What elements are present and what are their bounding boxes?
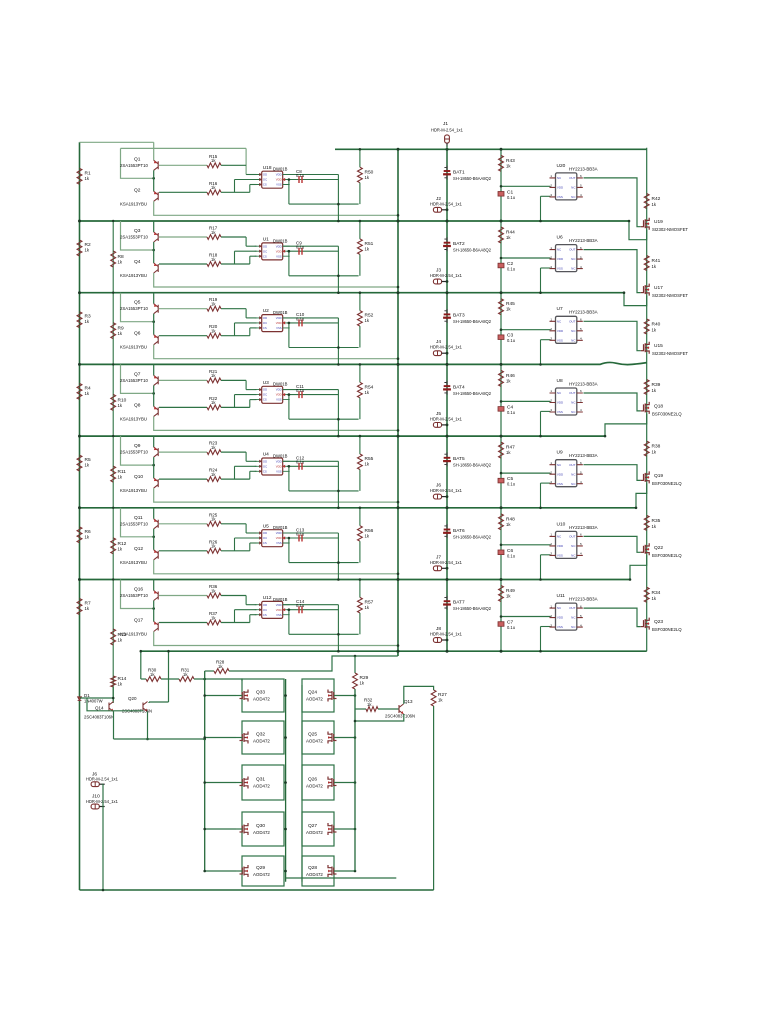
wire xyxy=(446,146,448,150)
IC U5 DW01B xyxy=(262,530,283,547)
IC U11 HY2213-BB3A xyxy=(556,603,577,630)
svg-text:0.1u: 0.1u xyxy=(507,195,515,200)
wire xyxy=(205,670,214,672)
wire xyxy=(168,651,170,702)
svg-text:Q23: Q23 xyxy=(654,619,663,625)
junction xyxy=(284,870,287,873)
svg-text:Q16: Q16 xyxy=(134,587,143,593)
junction xyxy=(539,578,542,581)
wire xyxy=(337,175,339,222)
connector J6 xyxy=(433,494,441,499)
wire xyxy=(501,257,551,259)
capacitor C7 xyxy=(498,622,504,627)
wire xyxy=(154,273,398,287)
wire xyxy=(221,236,246,238)
resistor R43 xyxy=(499,155,504,171)
junction xyxy=(397,220,400,223)
svg-text:VDD: VDD xyxy=(276,603,282,607)
wire xyxy=(159,595,207,597)
svg-text:SH-18650-B6AA8Q2: SH-18650-B6AA8Q2 xyxy=(453,248,492,253)
wire xyxy=(159,379,207,381)
wire xyxy=(204,671,206,871)
wire xyxy=(236,782,242,784)
wire xyxy=(121,364,154,393)
wire xyxy=(636,483,647,507)
wire xyxy=(235,465,257,467)
svg-text:CS: CS xyxy=(263,541,267,545)
transistor Q10 xyxy=(154,478,159,488)
junction xyxy=(78,291,81,294)
wire xyxy=(121,148,154,178)
resistor R56 xyxy=(358,526,363,542)
junction xyxy=(446,424,449,427)
wire xyxy=(159,308,207,310)
svg-text:KSA1913YBU: KSA1913YBU xyxy=(120,560,147,565)
wire xyxy=(446,149,448,651)
connector J6 xyxy=(91,782,99,787)
resistor R16 xyxy=(207,190,221,195)
transistor Q6 xyxy=(154,335,159,345)
wire xyxy=(245,237,247,246)
svg-text:SH-18650-B6AA8Q2: SH-18650-B6AA8Q2 xyxy=(453,606,492,611)
transistor Q16 xyxy=(154,591,159,601)
svg-text:CS: CS xyxy=(263,326,267,330)
wire xyxy=(287,394,339,396)
wire xyxy=(283,460,339,462)
junction xyxy=(397,650,400,653)
svg-text:OD: OD xyxy=(263,459,267,463)
wire bus 0 xyxy=(335,148,647,150)
svg-text:OD: OD xyxy=(263,244,267,248)
wire xyxy=(288,323,290,348)
junction xyxy=(288,322,291,325)
wire xyxy=(334,737,355,739)
wire xyxy=(584,608,641,627)
junction xyxy=(288,465,291,468)
wire bus 2 xyxy=(80,292,625,294)
wire xyxy=(334,870,355,872)
wire xyxy=(221,335,250,337)
svg-text:HDR-M-2.54_1x1: HDR-M-2.54_1x1 xyxy=(430,488,463,493)
wire xyxy=(286,877,397,879)
wire xyxy=(288,538,290,563)
junction xyxy=(284,736,287,739)
wire xyxy=(234,538,236,551)
wire xyxy=(246,245,256,247)
svg-text:U6: U6 xyxy=(557,235,563,241)
svg-text:SI2302-NMOSFET: SI2302-NMOSFET xyxy=(652,293,688,298)
transistor Q14 xyxy=(109,702,114,712)
junction xyxy=(337,220,340,223)
wire xyxy=(541,482,551,484)
transistor Q8 xyxy=(154,406,159,416)
svg-text:VDD: VDD xyxy=(557,329,564,333)
wire xyxy=(236,695,242,697)
wire xyxy=(79,142,81,890)
wire xyxy=(289,347,359,349)
wire xyxy=(354,656,356,673)
IC U8 HY2213-BB3A xyxy=(556,388,577,415)
svg-text:2SA1553PT10: 2SA1553PT10 xyxy=(120,378,149,383)
wire xyxy=(236,828,242,830)
resistor R37 xyxy=(207,620,221,625)
svg-text:Q30: Q30 xyxy=(256,823,265,829)
svg-text:U17: U17 xyxy=(654,285,663,291)
junction xyxy=(500,291,503,294)
wire xyxy=(283,317,339,319)
svg-text:HDR-M-2.54_1x1: HDR-M-2.54_1x1 xyxy=(430,560,463,565)
svg-text:Q28: Q28 xyxy=(308,865,317,871)
wire xyxy=(359,364,361,382)
svg-text:0.1u: 0.1u xyxy=(296,173,305,178)
junction xyxy=(337,650,340,653)
wire xyxy=(121,580,154,609)
wire xyxy=(283,389,339,391)
IC U4 DW01B xyxy=(262,458,283,475)
wire xyxy=(221,406,250,408)
svg-text:0.1u: 0.1u xyxy=(507,338,515,343)
box Q30 xyxy=(242,812,284,846)
wire xyxy=(205,870,236,872)
wire xyxy=(359,580,361,598)
wire xyxy=(153,529,155,550)
capacitor C12 xyxy=(299,463,302,470)
svg-text:VDD: VDD xyxy=(276,531,282,535)
junction xyxy=(152,464,155,467)
wire xyxy=(337,605,339,652)
svg-text:KSA1913YBU: KSA1913YBU xyxy=(120,345,147,350)
junction xyxy=(539,363,542,366)
wire xyxy=(249,328,251,336)
svg-text:VDD: VDD xyxy=(276,316,282,320)
wire xyxy=(397,149,399,656)
IC U12 DW01B xyxy=(262,601,283,618)
junction xyxy=(337,291,340,294)
svg-text:Q25: Q25 xyxy=(308,732,317,738)
wire xyxy=(359,541,361,562)
wire xyxy=(221,191,250,193)
junction xyxy=(359,578,362,581)
junction xyxy=(359,220,362,223)
wire xyxy=(205,737,236,739)
wire xyxy=(359,398,361,419)
connector J7 xyxy=(433,566,441,571)
svg-text:OUT: OUT xyxy=(569,248,576,252)
wire xyxy=(245,380,247,389)
resistor R50 xyxy=(358,167,363,183)
resistor R52 xyxy=(358,311,363,327)
svg-text:OC: OC xyxy=(263,464,267,468)
junction xyxy=(337,203,340,206)
junction xyxy=(112,578,114,580)
wire xyxy=(289,562,359,564)
resistor R9 xyxy=(111,323,116,339)
junction xyxy=(500,400,503,403)
wire xyxy=(221,622,250,624)
svg-text:HDR-M-2.54_1x1: HDR-M-2.54_1x1 xyxy=(430,632,463,637)
svg-text:DW01B: DW01B xyxy=(273,238,288,243)
wire xyxy=(221,550,250,552)
wire xyxy=(236,870,242,872)
svg-text:OC: OC xyxy=(263,178,267,182)
resistor R45 xyxy=(499,299,504,315)
svg-text:Q3: Q3 xyxy=(134,228,141,234)
transistor Q20 xyxy=(143,702,148,712)
svg-text:OD: OD xyxy=(263,388,267,392)
svg-text:VDD: VDD xyxy=(276,608,282,612)
wire xyxy=(630,555,647,579)
svg-text:BSF030NE2LQ: BSF030NE2LQ xyxy=(652,481,682,486)
connector J5 xyxy=(433,423,441,428)
capacitor C13 xyxy=(299,535,302,542)
svg-text:OC: OC xyxy=(263,608,267,612)
svg-text:0.1u: 0.1u xyxy=(296,388,305,393)
wire xyxy=(359,221,361,239)
svg-text:SH-18650-B6AA8Q2: SH-18650-B6AA8Q2 xyxy=(453,391,492,396)
svg-text:HDR-M-2.54_1x1: HDR-M-2.54_1x1 xyxy=(86,777,119,782)
svg-text:VDD: VDD xyxy=(276,536,282,540)
svg-text:OUT: OUT xyxy=(569,606,576,610)
svg-text:DW01B: DW01B xyxy=(273,597,288,602)
battery BAT1 xyxy=(446,166,448,180)
svg-text:Q13: Q13 xyxy=(404,699,413,704)
wire xyxy=(354,689,356,871)
junction xyxy=(288,537,291,540)
junction xyxy=(446,220,449,223)
svg-text:VDD: VDD xyxy=(276,321,282,325)
junction xyxy=(397,214,400,217)
wire xyxy=(153,170,155,191)
wire xyxy=(245,452,247,461)
wire xyxy=(629,221,647,240)
svg-text:Q32: Q32 xyxy=(256,732,265,738)
svg-text:VDD: VDD xyxy=(276,393,282,397)
resistor R40 xyxy=(644,319,649,334)
wire xyxy=(80,697,114,699)
svg-text:VSS: VSS xyxy=(276,469,282,473)
junction xyxy=(539,291,542,294)
junction xyxy=(397,650,400,653)
junction xyxy=(203,870,206,873)
svg-text:Q9: Q9 xyxy=(134,443,141,449)
wire xyxy=(337,390,339,437)
wire xyxy=(154,345,398,359)
resistor R19 xyxy=(207,306,221,311)
IC U9 HY2213-BB3A xyxy=(556,460,577,487)
junction xyxy=(500,615,503,618)
wire xyxy=(540,555,542,580)
transistor Q30 AOD472 xyxy=(240,823,249,835)
wire xyxy=(250,470,257,472)
junction xyxy=(203,828,206,831)
svg-text:VSS: VSS xyxy=(557,195,563,199)
svg-text:Q5: Q5 xyxy=(134,300,141,306)
junction xyxy=(446,639,449,642)
wire xyxy=(288,466,290,491)
junction xyxy=(337,418,340,421)
svg-text:Q11: Q11 xyxy=(134,515,143,521)
svg-text:HDR-M-2.54_1x1: HDR-M-2.54_1x1 xyxy=(430,201,463,206)
wire xyxy=(289,275,359,277)
svg-text:2SA1553PT10: 2SA1553PT10 xyxy=(120,521,149,526)
wire xyxy=(646,148,648,652)
battery BAT3 xyxy=(446,309,448,323)
capacitor C2 xyxy=(498,263,504,268)
wire xyxy=(501,544,551,546)
wire xyxy=(249,400,251,408)
capacitor C3 xyxy=(498,335,504,340)
junction xyxy=(628,220,631,223)
wire xyxy=(541,267,551,269)
svg-text:U7: U7 xyxy=(557,306,563,312)
transistor Q19 xyxy=(641,471,650,483)
wire xyxy=(153,314,155,335)
svg-text:BSF030NE2LQ: BSF030NE2LQ xyxy=(652,627,682,632)
transistor Q4 xyxy=(154,263,159,273)
svg-text:U3: U3 xyxy=(263,380,269,386)
junction xyxy=(359,363,362,366)
wire xyxy=(205,828,236,830)
wire xyxy=(334,828,355,830)
junction xyxy=(354,694,357,697)
junction xyxy=(140,650,143,653)
wire xyxy=(236,737,242,739)
svg-text:Q20: Q20 xyxy=(128,696,137,701)
resistor R29 xyxy=(353,673,358,689)
svg-text:HY2213-BB3A: HY2213-BB3A xyxy=(569,597,598,602)
svg-text:BSF030NE2LQ: BSF030NE2LQ xyxy=(652,553,682,558)
svg-text:VSS: VSS xyxy=(557,482,563,486)
wire xyxy=(301,685,303,882)
wire xyxy=(80,889,434,891)
wire xyxy=(501,400,551,402)
junction xyxy=(288,608,291,611)
svg-text:2SA1553PT10: 2SA1553PT10 xyxy=(120,163,149,168)
svg-text:VSS: VSS xyxy=(557,625,563,629)
junction xyxy=(112,697,115,700)
svg-text:VDD: VDD xyxy=(276,173,282,177)
wire xyxy=(153,221,155,232)
resistor R27 xyxy=(431,690,436,706)
svg-text:Q12: Q12 xyxy=(134,546,143,552)
svg-text:U10: U10 xyxy=(557,521,566,527)
junction xyxy=(446,578,449,581)
wire xyxy=(249,543,251,551)
wire xyxy=(359,183,361,204)
svg-text:U20: U20 xyxy=(557,163,566,169)
capacitor C11 xyxy=(299,391,302,398)
svg-text:BAT6: BAT6 xyxy=(453,528,465,534)
svg-text:Q6: Q6 xyxy=(134,331,141,337)
svg-text:0.1u: 0.1u xyxy=(296,603,305,608)
wire xyxy=(287,250,339,252)
junction xyxy=(539,220,542,223)
svg-text:0.1u: 0.1u xyxy=(507,553,515,558)
connector J8 xyxy=(433,638,441,643)
box Q33 xyxy=(242,679,284,712)
resistor R49 xyxy=(499,586,504,602)
svg-text:U1: U1 xyxy=(263,237,269,243)
box Q24 xyxy=(302,679,334,712)
resistor R20 xyxy=(207,333,221,338)
svg-text:0.1u: 0.1u xyxy=(296,245,305,250)
box Q27 xyxy=(302,812,334,846)
wire xyxy=(147,712,149,740)
wire xyxy=(153,601,155,622)
battery BAT7 xyxy=(446,596,448,610)
resistor R42 xyxy=(644,194,649,209)
wire xyxy=(584,250,641,293)
svg-text:DW01B: DW01B xyxy=(273,525,288,530)
junction xyxy=(359,435,362,438)
resistor R54 xyxy=(358,382,363,398)
junction xyxy=(446,650,449,653)
resistor R14 xyxy=(111,676,116,687)
wire bus 1 xyxy=(80,220,630,222)
svg-text:Q19: Q19 xyxy=(654,473,663,479)
battery BAT2 xyxy=(446,237,448,251)
svg-text:KSA1913YBU: KSA1913YBU xyxy=(120,488,147,493)
junction xyxy=(446,435,449,438)
svg-text:HDR-M-2.54_1x1: HDR-M-2.54_1x1 xyxy=(86,799,119,804)
wire xyxy=(101,783,104,785)
wire xyxy=(359,436,361,454)
resistor R4 xyxy=(77,383,82,399)
svg-text:AOD472: AOD472 xyxy=(306,830,323,835)
transistor Q22 xyxy=(641,543,650,555)
svg-text:AOD472: AOD472 xyxy=(253,739,270,744)
junction xyxy=(284,781,287,784)
junction xyxy=(152,249,155,252)
wire xyxy=(234,251,236,264)
svg-text:Q24: Q24 xyxy=(308,690,317,696)
resistor R30 xyxy=(146,677,161,682)
resistor R32 xyxy=(366,707,378,712)
wire xyxy=(378,708,399,710)
IC U2 DW01B xyxy=(262,315,283,332)
svg-text:AOD472: AOD472 xyxy=(253,784,270,789)
svg-text:Q4: Q4 xyxy=(134,259,141,265)
box Q29 xyxy=(242,856,284,886)
transistor Q7 xyxy=(154,375,159,385)
junction xyxy=(354,781,357,784)
wire xyxy=(235,179,257,181)
junction xyxy=(152,607,155,610)
wire xyxy=(433,706,435,890)
svg-text:HY2213-BB3A: HY2213-BB3A xyxy=(569,525,598,530)
wire xyxy=(337,246,339,293)
junction xyxy=(354,736,357,739)
wire xyxy=(337,533,339,580)
wire xyxy=(501,185,551,187)
wire xyxy=(245,148,247,174)
svg-text:VDD: VDD xyxy=(276,388,282,392)
svg-text:CS: CS xyxy=(263,469,267,473)
wire xyxy=(250,399,257,401)
transistor Q18 xyxy=(641,402,650,414)
junction xyxy=(500,220,503,223)
svg-text:VDD: VDD xyxy=(276,459,282,463)
svg-text:VDD: VDD xyxy=(276,464,282,468)
resistor R36 xyxy=(207,593,221,598)
svg-text:BSF030NE2LQ: BSF030NE2LQ xyxy=(652,411,682,416)
svg-text:VSS: VSS xyxy=(557,267,563,271)
junction xyxy=(397,286,400,289)
wire xyxy=(283,245,339,247)
resistor R3 xyxy=(77,312,82,328)
svg-text:2SC4083T106N: 2SC4083T106N xyxy=(84,715,114,720)
svg-text:Q26: Q26 xyxy=(308,777,317,783)
